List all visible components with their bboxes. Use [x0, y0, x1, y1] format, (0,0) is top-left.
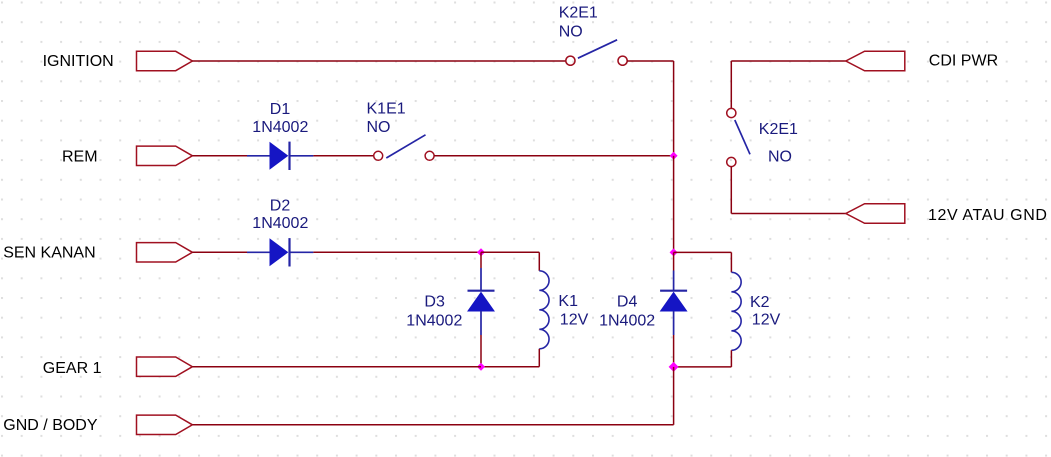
wire CDI PWR down to switch K2E1 right: [730, 61, 732, 108]
svg-text:12V: 12V: [560, 311, 589, 328]
diode D4: [660, 271, 687, 336]
svg-text:CDI PWR: CDI PWR: [929, 52, 998, 69]
svg-text:K2: K2: [750, 294, 770, 311]
svg-text:D2: D2: [270, 198, 291, 215]
wire REM to D1: [192, 155, 247, 157]
diode D2: [247, 238, 313, 266]
svg-text:1N4002: 1N4002: [406, 313, 462, 330]
wire coil K1 bottom to node D: [481, 366, 539, 368]
wire vertical bus down to node A: [673, 61, 675, 156]
wire coil K2 top lead: [730, 252, 732, 272]
switch K1E1 lever: [386, 135, 425, 158]
switch K2E1 top lever: [578, 40, 617, 58]
svg-text:NO: NO: [768, 148, 792, 165]
switch K2E1 right lever: [735, 120, 750, 154]
wire D2 to node B: [313, 251, 481, 253]
wire coil K1 bottom lead: [538, 349, 540, 367]
wire coil K2 bottom to node E: [674, 366, 732, 368]
svg-text:12V: 12V: [752, 312, 781, 329]
port 12V ATAU GND: [846, 204, 905, 224]
svg-text:SEN KANAN: SEN KANAN: [3, 244, 95, 261]
wire D1 to switch K1E1: [313, 155, 373, 157]
svg-text:K2E1: K2E1: [759, 121, 798, 138]
svg-text:1N4002: 1N4002: [599, 313, 655, 330]
svg-text:NO: NO: [367, 119, 391, 136]
switch K1E1 contact circle left: [374, 151, 383, 160]
svg-text:GEAR 1: GEAR 1: [43, 360, 102, 377]
diode D1: [247, 142, 313, 170]
svg-text:D4: D4: [617, 294, 638, 311]
svg-text:K1E1: K1E1: [367, 101, 406, 118]
wire switch K2E1 to corner: [627, 60, 673, 62]
switch K2E1 right contact circle top: [727, 108, 736, 117]
port GEAR 1: [137, 357, 193, 376]
junction node B: [477, 248, 485, 256]
switch K2E1 top contact circle left: [566, 56, 575, 65]
relay coil K1: [539, 271, 549, 349]
wire switch K1E1 to node A: [434, 155, 673, 157]
wire IGNITION to switch K2E1: [192, 60, 566, 62]
switch K2E1 top contact circle right: [618, 56, 627, 65]
wire coil K1 top lead: [538, 252, 540, 270]
wire node E down to GND corner: [673, 367, 675, 425]
svg-text:K2E1: K2E1: [559, 5, 598, 22]
svg-text:NO: NO: [559, 24, 583, 41]
svg-text:12V ATAU GND: 12V ATAU GND: [928, 207, 1048, 224]
svg-text:1N4002: 1N4002: [252, 119, 308, 136]
wire CDI PWR horizontal: [731, 60, 846, 62]
wire node C to coil K2 top: [674, 251, 732, 253]
wire coil K2 bottom lead: [730, 350, 732, 367]
switch K1E1 contact circle right: [425, 151, 434, 160]
junction node D: [477, 363, 485, 371]
port IGNITION: [137, 51, 193, 70]
svg-text:GND / BODY: GND / BODY: [3, 417, 98, 434]
svg-text:IGNITION: IGNITION: [43, 53, 114, 70]
switch K2E1 right contact circle bottom: [727, 157, 736, 166]
wire GND / BODY horizontal: [192, 424, 673, 426]
svg-text:D1: D1: [270, 101, 291, 118]
wire GEAR 1 to node D: [192, 366, 481, 368]
port REM: [137, 146, 193, 165]
relay coil K2: [731, 272, 741, 350]
wire switch K2E1 right to 12V ATAU GND: [730, 167, 732, 214]
svg-text:REM: REM: [62, 149, 98, 166]
svg-text:1N4002: 1N4002: [252, 215, 308, 232]
svg-text:D3: D3: [424, 294, 445, 311]
junction node A: [670, 152, 678, 160]
port SEN KANAN: [137, 243, 193, 262]
diode D4 top red stub: [673, 252, 675, 270]
svg-text:K1: K1: [558, 293, 578, 310]
diode D4 bottom red stub: [673, 335, 675, 367]
wire node A down to node C: [673, 156, 675, 253]
port GND / BODY: [137, 415, 193, 434]
diode D3 anode-top red stub: [480, 252, 482, 268]
diode D3 bottom red stub: [480, 335, 482, 367]
junction node E: [669, 362, 679, 372]
junction node C: [670, 248, 678, 256]
port CDI PWR: [846, 51, 905, 71]
wire 12V ATAU GND horizontal: [731, 213, 846, 215]
wire SEN KANAN to D2: [192, 251, 247, 253]
wire node B to coil K1 top: [481, 251, 539, 253]
diode D3: [468, 268, 495, 335]
